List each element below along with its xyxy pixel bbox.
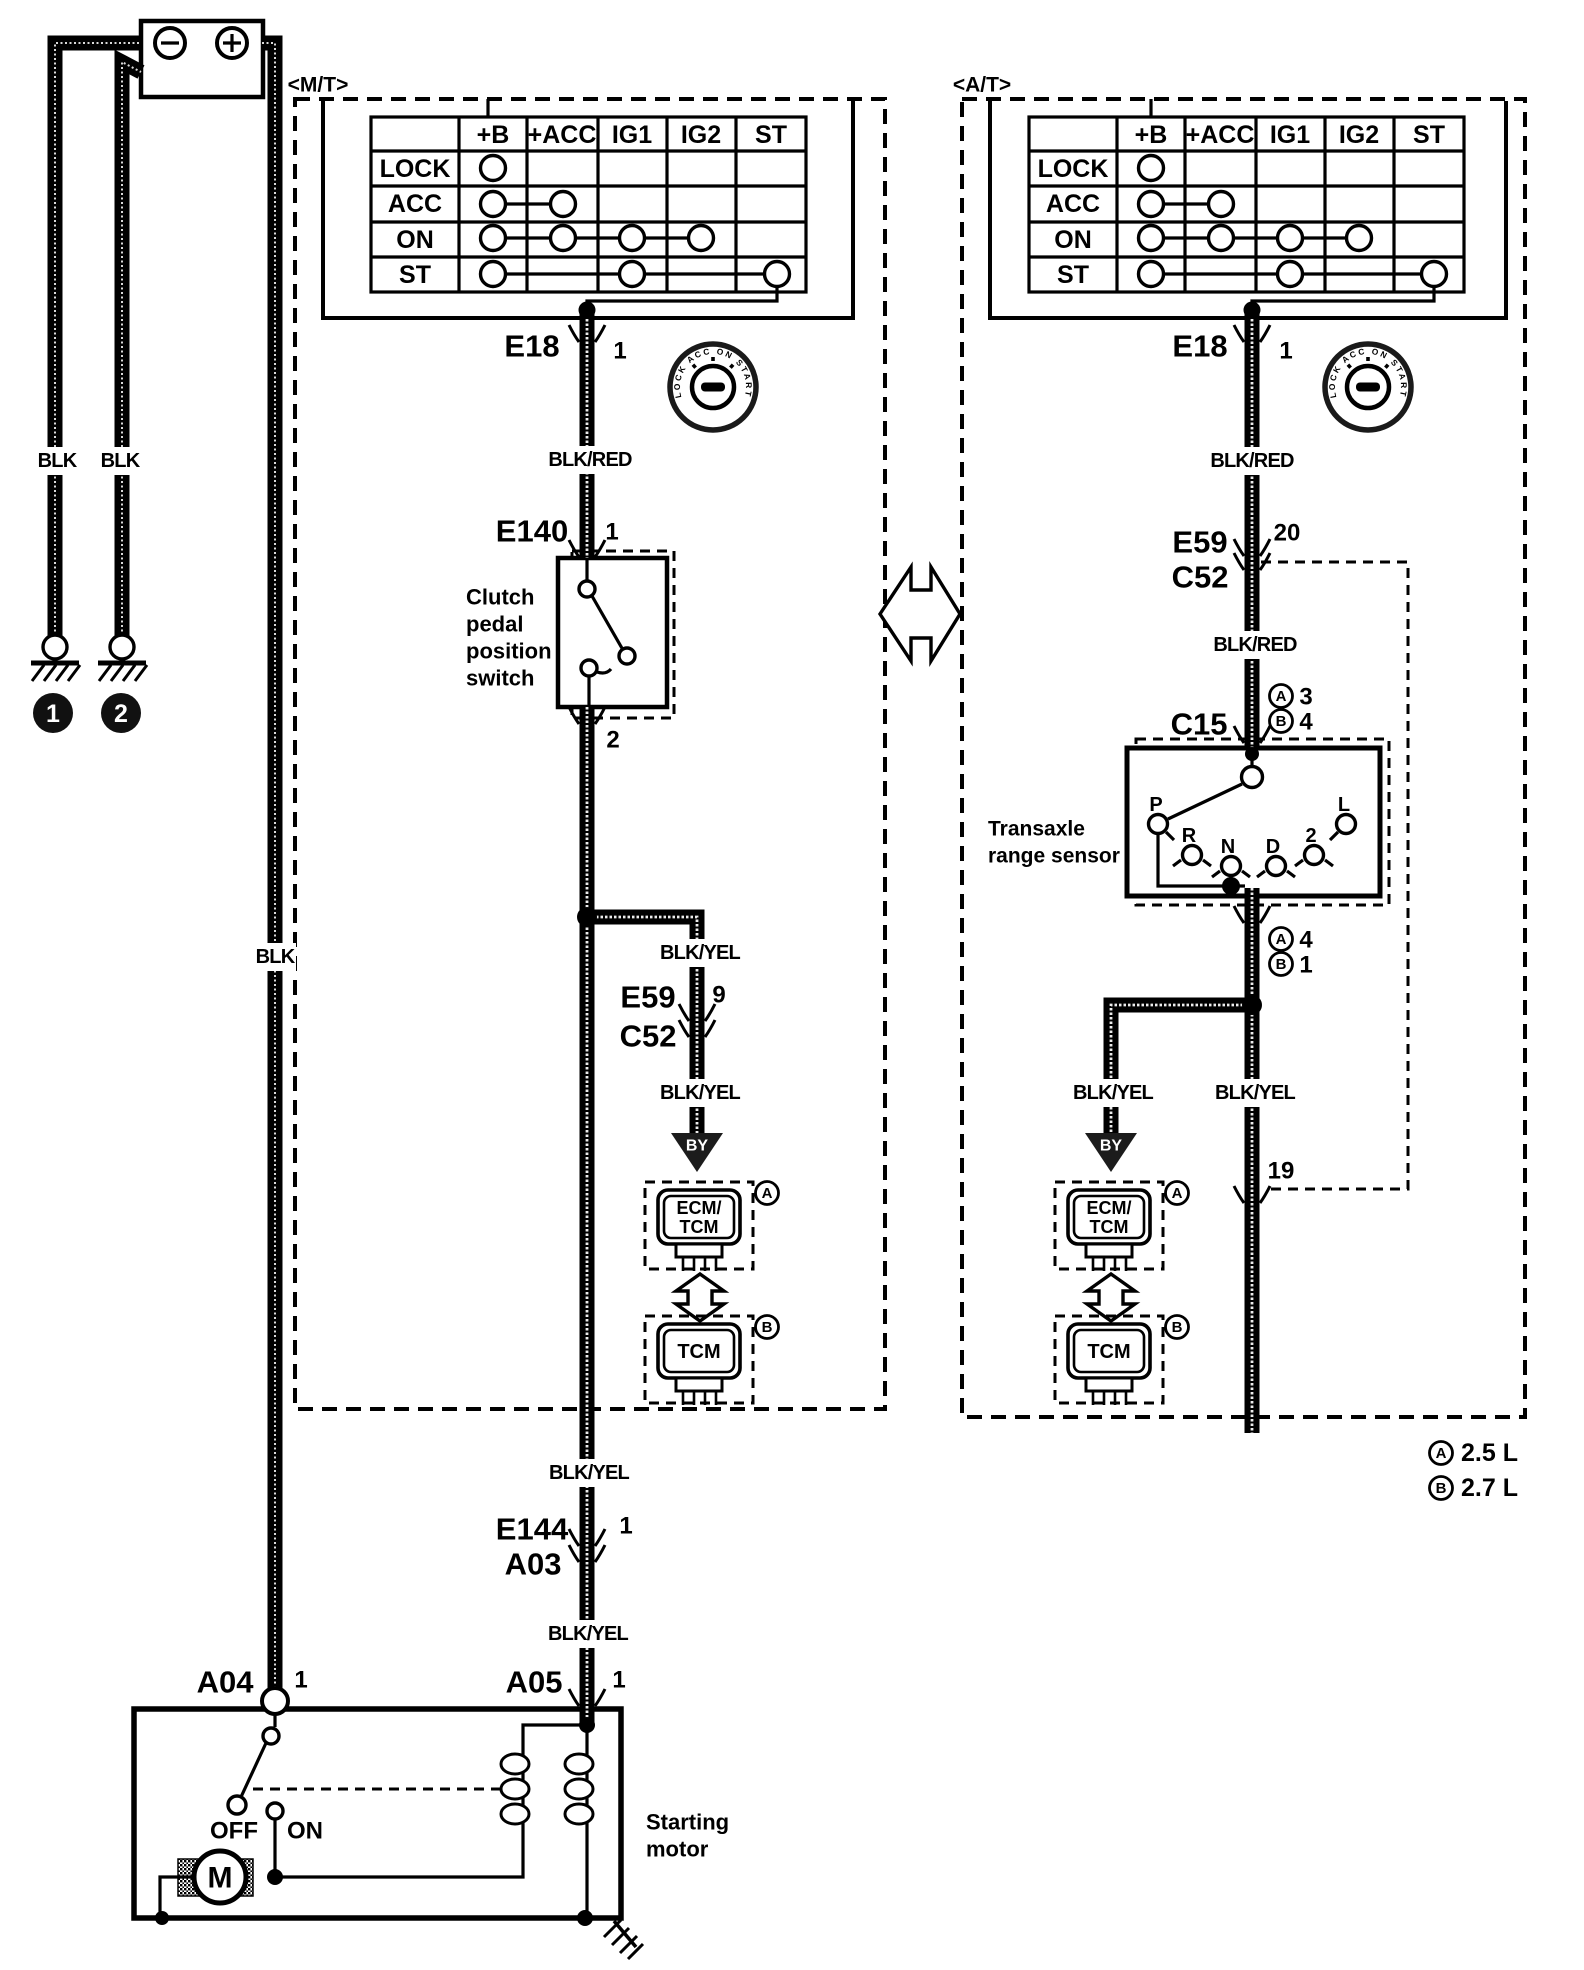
svg-text:M: M [208, 1862, 233, 1895]
net arrow BY (M/T) to ECM/TCM [671, 1133, 723, 1172]
svg-text:1: 1 [605, 519, 618, 546]
C15 output pin (2.7L) [1270, 953, 1293, 976]
wire: ignition ST to clutch switch (BLK/RED) [580, 310, 595, 558]
ground number 2 [101, 693, 141, 733]
starting motor box [134, 1709, 621, 1918]
svg-text:A04: A04 [197, 1665, 255, 1700]
wire label BLK battery positive [254, 943, 296, 971]
svg-text:TCM: TCM [1087, 1341, 1130, 1363]
battery B1 [141, 21, 263, 97]
svg-text:LOCK: LOCK [380, 155, 451, 183]
svg-text:BLK: BLK [256, 946, 296, 968]
transaxle range sensor: contact N [1212, 871, 1250, 877]
TCM module (A/T): variant mark B [1166, 1316, 1189, 1339]
connector E140 pin 2 crossing [569, 707, 605, 724]
svg-text:E140: E140 [496, 514, 568, 549]
battery negative terminal [155, 28, 185, 58]
TCM module (M/T): variant mark B [756, 1316, 779, 1339]
svg-text:1: 1 [612, 1667, 625, 1694]
wire label BLK/YEL above A05 [544, 1620, 633, 1648]
svg-text:R: R [1182, 825, 1197, 847]
battery positive terminal [217, 28, 247, 58]
transaxle range sensor: body [1127, 748, 1380, 896]
C15 pin (2.5L) [1270, 685, 1293, 708]
svg-text:2: 2 [1305, 825, 1316, 847]
A/T inner dashed harness route [1261, 562, 1408, 1189]
TCM module (M/T): connector tab and pins [676, 1378, 722, 1391]
M/T / A/T interchange double arrow [880, 567, 960, 661]
starting motor: A04 terminal circle [262, 1688, 288, 1714]
starting motor: feed to pull-in coil [275, 1832, 523, 1877]
ECM/TCM module (M/T): variant mark A [756, 1182, 779, 1205]
svg-text:<A/T>: <A/T> [953, 74, 1011, 97]
transaxle range sensor: dashed connector box [1136, 739, 1389, 905]
svg-text:ST: ST [1057, 261, 1089, 289]
wire: branch to ECM/TCM BY (BLK/YEL) [587, 917, 697, 1133]
starting motor: pull-in coil [585, 1725, 588, 1918]
ground G1 [43, 635, 67, 659]
TCM module (A/T): module icon [1068, 1324, 1150, 1378]
wire label BLK ground 1 [36, 447, 78, 475]
connector C15 crossing [1234, 726, 1270, 743]
svg-text:N: N [1221, 836, 1235, 858]
wire label BLK/YEL to ECM (M/T) [656, 1079, 745, 1107]
TCM module (A/T): connector tab and pins [1086, 1378, 1132, 1391]
net arrow BY (A/T) to ECM/TCM [1085, 1133, 1137, 1172]
svg-text:<M/T>: <M/T> [288, 74, 349, 97]
transaxle range sensor: contact 2 [1295, 860, 1333, 866]
connector C52 crossing [679, 1020, 715, 1037]
transaxle range sensor: selector lever [1168, 784, 1242, 819]
svg-text:ST: ST [1413, 121, 1445, 149]
M/T harness dashed box [295, 99, 885, 1409]
ignition switch (A/T): component frame [990, 101, 1506, 318]
svg-text:+B: +B [477, 121, 510, 149]
svg-text:ECM/: ECM/ [1087, 1198, 1132, 1218]
ignition switch (M/T): ACC row contacts [493, 202, 563, 205]
starting motor: hold-in coil [521, 1745, 524, 1832]
svg-text:1: 1 [294, 1667, 307, 1694]
junction: ignition feed node (M/T) [579, 302, 596, 319]
svg-text:ON: ON [396, 226, 434, 254]
svg-text:9: 9 [712, 982, 725, 1009]
ignition switch (A/T): ST row contacts [1151, 272, 1434, 275]
svg-text:ON: ON [287, 1818, 323, 1845]
svg-text:B: B [1276, 956, 1287, 973]
ECM/TCM module (A/T): variant mark A [1166, 1182, 1189, 1205]
transaxle range sensor: contact D [1257, 871, 1295, 877]
ECM/TCM module (A/T): connector tab and pins [1086, 1244, 1132, 1257]
starting motor: switch to motor wire [273, 1819, 276, 1877]
connector E140 pin 1 crossing [569, 540, 605, 557]
svg-text:BLK/YEL: BLK/YEL [549, 1462, 630, 1484]
legend mark B [1430, 1477, 1453, 1500]
svg-text:C15: C15 [1171, 707, 1228, 742]
svg-text:B: B [1276, 713, 1287, 730]
TCM module (M/T): dashed box [645, 1316, 753, 1403]
junction: BLK/YEL branch node [577, 907, 597, 927]
starting motor: coil top link [523, 1725, 587, 1745]
wire label BLK/RED (M/T) [546, 446, 635, 474]
svg-text:BY: BY [1100, 1138, 1123, 1155]
ignition switch (M/T): ST output tap to ignition feed [587, 286, 777, 310]
svg-text:L: L [1338, 794, 1350, 816]
ECM/TCM module (A/T): dashed box [1055, 1182, 1163, 1269]
starting motor: motor M [194, 1851, 246, 1903]
starting motor: plunger mechanical link (dashed) [253, 1788, 505, 1791]
svg-text:C52: C52 [1172, 560, 1229, 595]
wire label BLK/YEL pin 19 [1211, 1079, 1300, 1107]
ignition switch (A/T): ACC row contacts [1151, 202, 1221, 205]
transaxle range sensor: contact R [1173, 860, 1211, 866]
ignition switch (M/T): ST row contacts [493, 272, 777, 275]
wire: clutch switch to starting motor A05 (BLK/YEL) [580, 707, 595, 1722]
chassis ground at starting motor [614, 1921, 636, 1947]
svg-text:TCM: TCM [1090, 1217, 1129, 1237]
svg-text:A: A [1172, 1185, 1183, 1202]
svg-text:+ACC: +ACC [1186, 121, 1255, 149]
ECM/TCM module (M/T): dashed box [645, 1182, 753, 1269]
svg-text:E59: E59 [620, 980, 675, 1015]
C15 output pin (2.5L) [1270, 928, 1293, 951]
svg-text:range sensor: range sensor [988, 845, 1120, 868]
svg-text:IG2: IG2 [681, 121, 721, 149]
interchange arrow (M/T modules) [676, 1274, 724, 1321]
ground number 1 [33, 693, 73, 733]
C15 pin (2.7L) [1270, 710, 1293, 733]
svg-text:Starting: Starting [646, 1810, 729, 1835]
svg-text:4: 4 [1299, 927, 1313, 954]
svg-text:ACC: ACC [388, 190, 442, 218]
junction: ignition feed node (A/T) [1244, 302, 1261, 319]
wire label BLK/RED (A/T) [1208, 447, 1297, 475]
svg-text:BLK/YEL: BLK/YEL [1215, 1082, 1296, 1104]
svg-text:ECM/: ECM/ [677, 1198, 722, 1218]
wire: battery positive to starting motor A04 (BLK) [262, 43, 275, 1688]
ECM/TCM module (M/T): connector tab and pins [676, 1244, 722, 1257]
svg-text:IG1: IG1 [1270, 121, 1310, 149]
svg-text:ST: ST [755, 121, 787, 149]
interchange arrow (A/T modules) [1087, 1274, 1135, 1321]
svg-text:B: B [1172, 1319, 1183, 1336]
svg-text:19: 19 [1268, 1158, 1295, 1185]
connector E144 crossing [569, 1529, 605, 1546]
svg-text:A: A [1276, 931, 1287, 948]
ECM/TCM module (M/T): module icon [658, 1190, 740, 1244]
svg-text:P: P [1149, 794, 1162, 816]
clutch pedal position switch: body [558, 558, 667, 707]
ignition key symbol (M/T) [670, 344, 756, 430]
svg-text:TCM: TCM [680, 1217, 719, 1237]
ignition switch (M/T): ON row contacts [493, 236, 701, 239]
ground G2 [110, 635, 134, 659]
connector C52 crossing (A/T) [1234, 553, 1270, 570]
svg-text:B: B [1436, 1480, 1447, 1497]
svg-text:ON: ON [1054, 226, 1092, 254]
wire label BLK/YEL below M/T box [545, 1459, 634, 1487]
svg-text:2: 2 [114, 700, 128, 728]
svg-text:1: 1 [1299, 952, 1312, 979]
svg-text:IG2: IG2 [1339, 121, 1379, 149]
svg-text:BLK/YEL: BLK/YEL [660, 1082, 741, 1104]
svg-text:IG1: IG1 [612, 121, 652, 149]
wire: battery negative to ground 1 (BLK) [55, 43, 141, 636]
connector E18 pin 1 crossing (A/T) [1234, 325, 1270, 342]
svg-text:BLK/RED: BLK/RED [1210, 450, 1294, 472]
svg-text:BLK/RED: BLK/RED [1213, 634, 1297, 656]
svg-text:+ACC: +ACC [528, 121, 597, 149]
junction: motor ground node [155, 1911, 169, 1925]
wire: range sensor to pin 19 (BLK/YEL) [1245, 888, 1260, 1433]
svg-text:1: 1 [613, 338, 626, 365]
connector E59 pin 20 crossing [1234, 539, 1270, 556]
svg-text:1: 1 [1279, 338, 1292, 365]
wire label BLK/YEL to ECM (A/T) [1069, 1079, 1158, 1107]
svg-text:LOCK: LOCK [1038, 155, 1109, 183]
svg-text:+B: +B [1135, 121, 1168, 149]
svg-text:B: B [762, 1319, 773, 1336]
svg-text:D: D [1266, 836, 1280, 858]
ignition switch (M/T): component frame [323, 101, 853, 318]
ignition key symbol (A/T) [1325, 344, 1411, 430]
svg-text:BY: BY [686, 1138, 709, 1155]
svg-text:BLK/YEL: BLK/YEL [1073, 1082, 1154, 1104]
svg-text:BLK: BLK [38, 450, 78, 472]
svg-text:E18: E18 [1172, 329, 1227, 364]
svg-text:E144: E144 [496, 1512, 569, 1547]
wire: branch to ECM/TCM BY (A/T, BLK/YEL) [1111, 1005, 1252, 1133]
svg-text:Clutch: Clutch [466, 585, 534, 610]
svg-text:ACC: ACC [1046, 190, 1100, 218]
ignition switch (A/T): ST output tap to ignition feed [1252, 286, 1434, 310]
wire label BLK/YEL branch (M/T) [656, 939, 745, 967]
svg-text:1: 1 [46, 700, 60, 728]
svg-text:E18: E18 [504, 329, 559, 364]
ignition switch (A/T): ON row contacts [1151, 236, 1359, 239]
svg-text:OFF: OFF [210, 1818, 258, 1845]
svg-text:2.7 L: 2.7 L [1461, 1474, 1518, 1502]
svg-text:A03: A03 [505, 1547, 562, 1582]
transaxle range sensor: contact L [1330, 832, 1338, 840]
wire: ignition ST to range sensor (BLK/RED) [1245, 310, 1260, 750]
svg-text:20: 20 [1274, 520, 1301, 547]
connector pin 19 crossing [1234, 1186, 1270, 1203]
ignition switch (M/T): LOCK row contact [481, 156, 506, 181]
svg-text:ST: ST [399, 261, 431, 289]
TCM module (M/T): module icon [658, 1324, 740, 1378]
junction: coil ground node [577, 1910, 593, 1926]
svg-text:switch: switch [466, 666, 534, 691]
ECM/TCM module (A/T): module icon [1068, 1190, 1150, 1244]
starting motor: brush block [178, 1859, 253, 1896]
junction: sensor input node [1245, 747, 1259, 761]
svg-text:2.5 L: 2.5 L [1461, 1439, 1518, 1467]
connector A05 pin 1 crossing [569, 1689, 605, 1706]
svg-text:C52: C52 [620, 1019, 677, 1054]
starting motor: magnetic switch contacts [273, 1714, 276, 1727]
clutch pedal position switch: dashed connector box [572, 551, 674, 718]
transaxle range sensor: contact P [1166, 832, 1174, 840]
svg-text:3: 3 [1299, 684, 1312, 711]
ignition switch (M/T): contact table [371, 117, 806, 292]
svg-text:BLK/YEL: BLK/YEL [660, 942, 741, 964]
junction: motor feed node [267, 1869, 283, 1885]
svg-text:A: A [762, 1185, 773, 1202]
wire label BLK ground 2 [99, 447, 141, 475]
connector E18 pin 1 crossing (M/T) [569, 325, 605, 342]
svg-text:A05: A05 [506, 1665, 563, 1700]
wire: battery to ground 2 (BLK) [122, 62, 141, 636]
junction: BLK/YEL branch node (A/T) [1242, 995, 1262, 1015]
ignition switch (A/T): contact table [1029, 117, 1464, 292]
svg-text:A: A [1276, 688, 1287, 705]
svg-text:BLK/YEL: BLK/YEL [548, 1623, 629, 1645]
connector A03 crossing [569, 1545, 605, 1562]
svg-text:1: 1 [619, 1513, 632, 1540]
transaxle range sensor: P contact wire to output [1158, 835, 1245, 886]
svg-text:4: 4 [1299, 709, 1313, 736]
svg-text:2: 2 [606, 727, 619, 754]
junction: sensor output node [1222, 877, 1240, 895]
svg-text:A: A [1436, 1445, 1447, 1462]
wire label BLK/RED to C15 [1211, 631, 1300, 659]
clutch pedal position switch: contacts and lever [585, 558, 588, 581]
starting motor: motor to case ground wire [160, 1877, 194, 1915]
svg-text:Transaxle: Transaxle [988, 818, 1085, 841]
svg-text:motor: motor [646, 1837, 709, 1862]
transaxle range sensor: pivot contact [1250, 748, 1253, 765]
svg-text:position: position [466, 639, 552, 664]
svg-text:TCM: TCM [677, 1341, 720, 1363]
connector C15 output crossing [1234, 906, 1270, 923]
svg-text:BLK/RED: BLK/RED [548, 449, 632, 471]
A/T harness dashed box [962, 99, 1525, 1417]
svg-text:BLK: BLK [101, 450, 141, 472]
svg-text:E59: E59 [1172, 525, 1227, 560]
junction: A05 coil node [579, 1717, 595, 1733]
ignition switch (A/T): LOCK row contact [1139, 156, 1164, 181]
svg-text:pedal: pedal [466, 612, 523, 637]
connector E59 pin 9 crossing [679, 1004, 715, 1021]
TCM module (A/T): dashed box [1055, 1316, 1163, 1403]
legend mark A [1430, 1442, 1453, 1465]
